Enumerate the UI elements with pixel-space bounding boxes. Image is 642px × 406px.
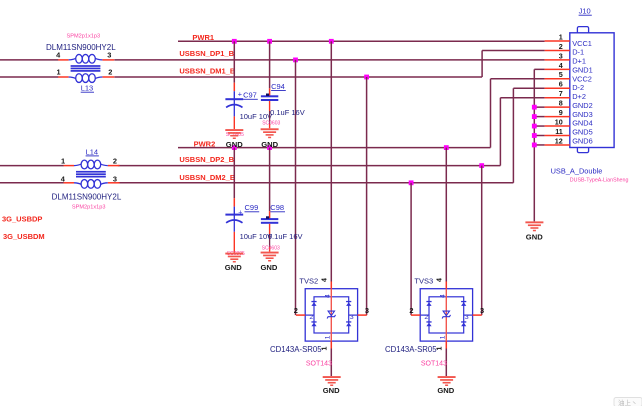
svg-text:+: +: [238, 89, 242, 98]
svg-text:USBSN_DM1_B: USBSN_DM1_B: [179, 67, 235, 76]
L13 footprint SPM2p1x1p3: [67, 33, 101, 39]
wire C99 to ground: [233, 232, 235, 253]
wire PWR1 to TVS2 pin 4 vertical: [330, 41, 332, 281]
J10 pin number 1: [559, 32, 563, 41]
wire TVS2 pin 1 to ground vertical: [330, 349, 332, 377]
J10 pin name VCC2: [572, 74, 592, 83]
svg-text:GND: GND: [526, 233, 543, 242]
J10 pin number 3: [559, 51, 563, 60]
TVS3 reference label: [414, 277, 433, 286]
svg-text:TVS3: TVS3: [414, 277, 433, 286]
svg-text:PWR2: PWR2: [194, 139, 216, 148]
svg-text:1: 1: [559, 32, 563, 41]
svg-text:CD143A-SR05: CD143A-SR05: [385, 345, 437, 354]
wire USBSN_DP1_B left of L13: [0, 59, 58, 61]
J10 pin name D+2: [572, 92, 586, 101]
TVS3 pin number 2: [409, 306, 413, 315]
ground symbol under J10: [525, 221, 543, 231]
svg-text:GND2: GND2: [572, 101, 593, 110]
TVS2 footprint SOT143: [306, 360, 332, 367]
GND label under C98: [261, 263, 278, 272]
svg-text:3G_USBDP: 3G_USBDP: [2, 214, 42, 223]
svg-text:USBSN_DM2_B: USBSN_DM2_B: [179, 173, 235, 182]
svg-text:1: 1: [325, 335, 332, 339]
svg-text:D-2: D-2: [572, 83, 584, 92]
svg-text:2: 2: [409, 306, 413, 315]
C99 footprint SC0805: [227, 251, 245, 257]
svg-text:GND: GND: [437, 386, 454, 395]
C99 plus sign and reference label: [238, 203, 259, 216]
node PWR2 junction at C98 column: [267, 145, 272, 150]
capacitor C97 10uF 10V polarized: [225, 98, 243, 116]
svg-text:SPM2p1x1p3: SPM2p1x1p3: [72, 205, 106, 211]
wire USBSN_DP1_B from L13 to J10 pin 3: [114, 59, 544, 61]
wire USBSN_DP2_B vertical up to J10 pin 7: [499, 98, 501, 166]
J10 pin name VCC1: [572, 39, 592, 48]
L13 pin number 1: [57, 68, 61, 77]
C97 value 10uF 10V: [240, 112, 273, 121]
svg-text:11: 11: [555, 127, 563, 136]
svg-text:3G_USBDM: 3G_USBDM: [3, 232, 45, 241]
svg-text:USB_A_Double: USB_A_Double: [551, 166, 603, 175]
J10 pin name GND4: [572, 119, 593, 128]
svg-text:GND4: GND4: [572, 119, 593, 128]
TVS3 footprint SOT143: [421, 360, 447, 367]
svg-text:J10: J10: [579, 7, 591, 16]
svg-text:2: 2: [294, 306, 298, 315]
svg-text:D+2: D+2: [572, 92, 586, 101]
wire TVS3 pin 1 to ground vertical: [445, 349, 447, 377]
svg-text:GND: GND: [225, 263, 242, 272]
capacitor C94 0.1uF 16V: [261, 94, 278, 102]
L14 reference label: [86, 147, 99, 156]
wire C97 to ground: [233, 116, 235, 129]
J10 pin name GND2: [572, 101, 593, 110]
wire C98 to ground: [269, 224, 271, 252]
svg-text:2: 2: [559, 42, 563, 51]
svg-text:SOT143: SOT143: [421, 360, 447, 367]
svg-text:3: 3: [350, 314, 354, 321]
svg-text:1: 1: [440, 335, 447, 339]
TVS3 pin number 3: [480, 306, 484, 315]
net label PWR2: [194, 139, 216, 148]
svg-text:3: 3: [365, 306, 369, 315]
wire J10 GND pin 11 stub to ground rail: [534, 135, 544, 137]
svg-text:D-1: D-1: [572, 48, 584, 57]
J10 pin 3 stub: [545, 59, 570, 61]
J10 pin name D-1: [572, 48, 584, 57]
net label PWR1: [192, 33, 214, 42]
svg-text:CD143A-SR05: CD143A-SR05: [270, 345, 322, 354]
wire PWR1 to C94 vertical: [269, 41, 271, 96]
wire USBSN_DM2_B left of L14: [0, 182, 64, 184]
node PWR1 junction at TVS2 column: [329, 39, 334, 44]
wire PWR1 horizontal: [178, 40, 545, 42]
svg-text:4: 4: [559, 61, 563, 70]
J10 part name USB_A_Double: [551, 166, 603, 175]
GND label under C97: [226, 140, 243, 149]
svg-text:VCC1: VCC1: [572, 39, 592, 48]
svg-text:L13: L13: [81, 84, 94, 93]
L13 pin number 3: [107, 50, 111, 59]
ground symbol under TVS3: [438, 376, 456, 386]
TVS2 part number CD143A-SR05: [270, 345, 322, 354]
svg-text:3: 3: [465, 314, 469, 321]
wire J10 GND pin 10 stub to ground rail: [534, 125, 544, 127]
node PWR2 junction at C99 column: [232, 145, 237, 150]
wire J10 GND1 pin 4 to ground rail: [534, 69, 544, 221]
TVS diode array TVS2 CD143A-SR05: [296, 282, 367, 349]
net label USBSN_DM2_B: [179, 173, 235, 182]
L14 pin number 3: [113, 174, 117, 183]
J10 reference label: [579, 7, 592, 16]
J10 pin number 2: [559, 42, 563, 51]
svg-text:DLM11SN900HY2L: DLM11SN900HY2L: [52, 192, 122, 201]
J10 pin number 6: [559, 80, 563, 89]
svg-text:SOT143: SOT143: [306, 360, 332, 367]
J10 pin number 11: [555, 127, 563, 136]
svg-text:DUSB-TypeA-LianSheng: DUSB-TypeA-LianSheng: [570, 178, 629, 184]
svg-text:GND: GND: [226, 140, 243, 149]
wire PWR2 horizontal: [178, 147, 491, 149]
J10 footprint DUSB-TypeA-LianSheng: [570, 178, 629, 184]
wire J10 GND pin 8 stub to ground rail: [534, 106, 544, 108]
C94 reference label: [271, 82, 286, 91]
TVS3 pin number 1: [437, 346, 444, 350]
svg-text:12: 12: [555, 136, 563, 145]
GND label under TVS3: [437, 386, 454, 395]
C94 footprint SC0603: [262, 121, 280, 127]
ground symbol under C97: [225, 129, 243, 139]
node ground rail junction pin 9: [532, 114, 537, 119]
J10 pin number 5: [559, 70, 563, 79]
node ground rail junction pin 12: [532, 143, 537, 148]
svg-text:GND: GND: [261, 140, 278, 149]
svg-text:DLM11SN900HY2L: DLM11SN900HY2L: [46, 43, 116, 52]
TVS2 pin number 4: [322, 278, 329, 282]
C98 footprint SC0603: [262, 245, 280, 251]
J10 pin 1 stub: [545, 40, 570, 42]
J10 pin name GND3: [572, 110, 593, 119]
net label USBSN_DP1_B: [179, 49, 234, 58]
C98 reference label: [270, 203, 285, 212]
wire USBSN_DM1_B left of L13: [0, 76, 58, 78]
J10 pin number 10: [555, 117, 563, 126]
L14 part number DLM11SN900HY2L: [52, 192, 122, 201]
wire USBSN_DP1_B to TVS2 pin 2 vertical: [295, 60, 297, 315]
TVS3 pin number 4: [437, 278, 444, 282]
L13 part number DLM11SN900HY2L: [46, 43, 116, 52]
wire USBSN_DM1_B to TVS2 pin 3 vertical: [366, 77, 368, 315]
svg-text:9: 9: [559, 108, 563, 117]
wire PWR2 to TVS3 pin 4 vertical: [445, 148, 447, 282]
J10 pin 9 stub: [545, 116, 570, 118]
C99 value 10uF 10V: [240, 232, 273, 241]
node USBSN_DP2_B junction at TVS3 right column: [479, 163, 484, 168]
node ground rail junction pin 8: [532, 105, 537, 110]
capacitor C98 0.1uF 16V: [261, 216, 278, 224]
svg-text:TVS2: TVS2: [299, 277, 318, 286]
connector J10 USB_A_Double body: [570, 27, 614, 153]
J10 pin 5 stub: [545, 78, 570, 80]
wire USBSN_DP2_B to TVS3 pin 3 vertical: [481, 166, 483, 316]
J10 pin number 8: [559, 99, 563, 108]
watermark box: [614, 398, 642, 406]
wire USBSN_DP2_B horizontal into J10 pin 7: [500, 97, 544, 99]
C97 plus sign and reference label: [238, 89, 258, 99]
L14 footprint SPM2p1x1p3: [72, 205, 106, 211]
L13 pin number 4: [56, 50, 61, 59]
node USBSN_DM2_B junction at TVS3 left column: [409, 180, 414, 185]
svg-text:4: 4: [440, 294, 447, 298]
svg-text:GND3: GND3: [572, 110, 593, 119]
node PWR2 junction at TVS3 column: [444, 145, 449, 150]
svg-text:6: 6: [559, 80, 563, 89]
wire USBSN_DM2_B horizontal into J10 pin 6: [513, 87, 544, 89]
svg-text:5: 5: [559, 70, 563, 79]
svg-text:USBSN_DP2_B: USBSN_DP2_B: [179, 155, 234, 164]
svg-text:4: 4: [325, 294, 332, 298]
TVS diode array TVS3 CD143A-SR05: [411, 282, 482, 349]
wire USBSN_DM2_B from L14 to corner: [118, 182, 514, 184]
wire C94 to ground: [269, 101, 271, 128]
svg-text:C99: C99: [245, 203, 259, 212]
L14 pin number 1: [61, 157, 65, 166]
net label 3G_USBDM: [3, 232, 45, 241]
ground symbol under C99: [225, 253, 243, 263]
svg-text:2: 2: [108, 68, 112, 77]
J10 pin 2 stub: [545, 49, 570, 51]
svg-text:PWR1: PWR1: [192, 33, 214, 42]
C94 value 0.1uF 16V: [270, 108, 305, 117]
L13 pin number 2: [108, 68, 112, 77]
node PWR1 junction at C97 column: [232, 39, 237, 44]
svg-text:GND6: GND6: [572, 136, 593, 145]
ground symbol under C98: [261, 252, 279, 262]
svg-text:GND: GND: [323, 386, 340, 395]
wire USBSN_DM1_B vertical jog up to pin 2 level: [481, 50, 483, 77]
ground symbol under C94: [261, 128, 279, 138]
wire J10 GND pin 9 stub to ground rail: [534, 116, 544, 118]
svg-text:C94: C94: [271, 82, 285, 91]
inductor L13 common-mode choke: [58, 54, 114, 82]
svg-text:1: 1: [437, 346, 444, 350]
svg-text:1: 1: [322, 346, 329, 350]
TVS2 pin number 2: [294, 306, 298, 315]
svg-text:C98: C98: [270, 203, 284, 212]
L13 reference label: [81, 84, 94, 93]
wire USBSN_DP2_B from L14 to corner: [118, 165, 501, 167]
net label USBSN_DM1_B: [179, 67, 235, 76]
svg-text:8: 8: [559, 99, 563, 108]
svg-text:GND5: GND5: [572, 128, 593, 137]
svg-text:0.1uF 16V: 0.1uF 16V: [270, 108, 305, 117]
svg-text:C97: C97: [243, 91, 257, 100]
node USBSN_DP1_B junction at TVS2 left column: [293, 58, 298, 63]
svg-text:GND1: GND1: [572, 65, 593, 74]
net label USBSN_DP2_B: [179, 155, 234, 164]
svg-text:USBSN_DP1_B: USBSN_DP1_B: [179, 49, 234, 58]
svg-text:10: 10: [555, 117, 563, 126]
svg-text:4: 4: [437, 278, 444, 282]
GND label under J10: [526, 233, 543, 242]
wire PWR2 to C99 vertical: [233, 148, 235, 215]
TVS2 pin number 3: [365, 306, 369, 315]
net label 3G_USBDP: [2, 214, 42, 223]
C97 footprint SC0805: [226, 132, 244, 138]
J10 pin name GND1: [572, 65, 593, 74]
wire PWR2 vertical up to J10 pin 5: [490, 79, 492, 148]
svg-text:L14: L14: [86, 147, 99, 156]
J10 pin number 7: [559, 89, 563, 98]
svg-text:SPM2p1x1p3: SPM2p1x1p3: [67, 33, 101, 39]
wire J10 GND pin 12 stub to ground rail: [534, 144, 544, 146]
J10 pin number 4: [559, 61, 563, 70]
node USBSN_DM1_B junction at TVS2 right column: [364, 75, 369, 80]
J10 pin 7 stub: [545, 97, 570, 99]
inductor L14 common-mode choke: [64, 160, 120, 188]
wire USBSN_DM1_B horizontal into J10 pin 2: [482, 49, 544, 51]
svg-text:2: 2: [113, 157, 117, 166]
J10 pin name GND6: [572, 136, 593, 145]
svg-text:3: 3: [113, 174, 117, 183]
J10 pin 10 stub: [545, 125, 570, 127]
J10 pin 4 stub: [545, 68, 570, 70]
svg-text:D+1: D+1: [572, 57, 586, 66]
node ground rail junction pin 11: [532, 133, 537, 138]
J10 pin 11 stub: [545, 135, 570, 137]
svg-text:2: 2: [424, 314, 428, 321]
GND label under C99: [225, 263, 242, 272]
svg-text:3: 3: [480, 306, 484, 315]
wire USBSN_DP2_B left of L14: [0, 165, 64, 167]
J10 pin name D-2: [572, 83, 584, 92]
J10 pin number 12: [555, 136, 563, 145]
TVS3 part number CD143A-SR05: [385, 345, 437, 354]
svg-text:SC0603: SC0603: [262, 245, 280, 251]
L14 pin number 4: [61, 174, 66, 183]
svg-text:3: 3: [559, 51, 563, 60]
svg-text:0.1uF 16V: 0.1uF 16V: [268, 232, 303, 241]
svg-text:2: 2: [309, 314, 313, 321]
J10 pin 6 stub: [545, 87, 570, 89]
TVS2 pin number 1: [322, 346, 329, 350]
J10 pin number 9: [559, 108, 563, 117]
J10 pin name D+1: [572, 57, 586, 66]
svg-text:7: 7: [559, 89, 563, 98]
L14 pin number 2: [113, 157, 117, 166]
svg-text:GND: GND: [261, 263, 278, 272]
J10 pin 8 stub: [545, 106, 570, 108]
J10 pin 12 stub: [545, 144, 570, 146]
capacitor C99 10uF 10V polarized: [225, 214, 243, 232]
node PWR1 junction at C94 column: [267, 39, 272, 44]
svg-text:1: 1: [57, 68, 61, 77]
svg-text:VCC2: VCC2: [572, 74, 592, 83]
GND label under TVS2: [323, 386, 340, 395]
C98 value 0.1uF 16V: [268, 232, 303, 241]
wire USBSN_DM2_B vertical up to J10 pin 6: [512, 88, 514, 183]
J10 pin name GND5: [572, 128, 593, 137]
GND label under C94: [261, 140, 278, 149]
wire USBSN_DM1_B from L13 to jog column: [114, 76, 482, 78]
wire USBSN_DM2_B to TVS3 pin 2 vertical: [410, 183, 412, 315]
wire PWR2 horizontal into J10 pin 5: [491, 78, 545, 80]
svg-text:4: 4: [322, 278, 329, 282]
node ground rail junction pin 10: [532, 124, 537, 129]
svg-text:SC0603: SC0603: [262, 121, 280, 127]
ground symbol under TVS2: [323, 376, 341, 386]
TVS2 reference label: [299, 277, 318, 286]
wire PWR1 to C97 vertical: [233, 41, 235, 99]
svg-text:油上丶: 油上丶: [618, 398, 638, 406]
svg-text:1: 1: [61, 157, 65, 166]
wire PWR2 to C98 vertical: [269, 148, 271, 220]
svg-text:+: +: [238, 209, 242, 216]
